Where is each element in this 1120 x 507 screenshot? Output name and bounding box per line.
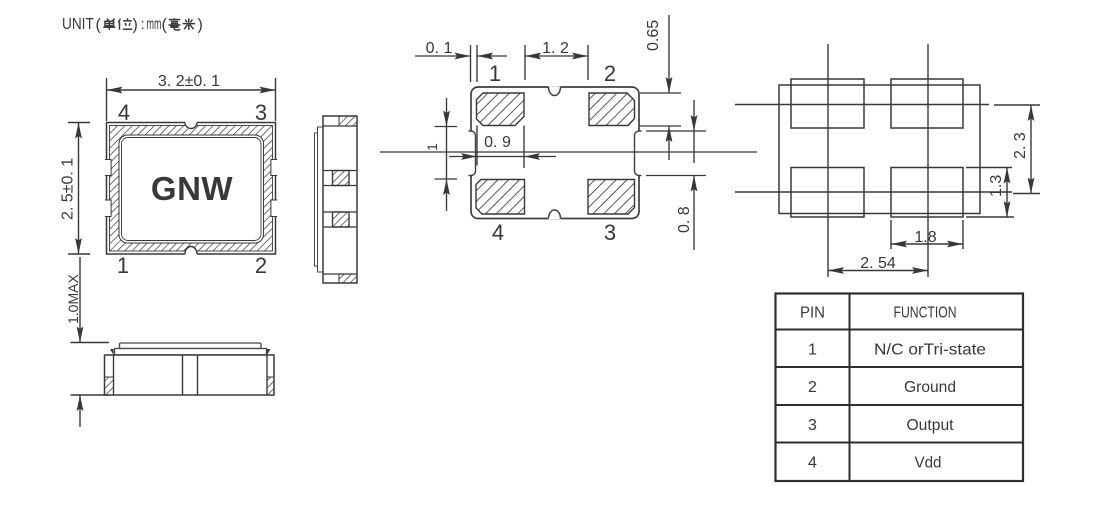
svg-text:PIN: PIN [800,305,825,322]
svg-text:UNIT: UNIT [62,16,94,33]
svg-text:Vdd: Vdd [915,455,942,472]
svg-text:1.0MAX: 1.0MAX [65,274,81,324]
svg-text:2. 54: 2. 54 [860,255,896,272]
svg-text:FUNCTION: FUNCTION [894,305,957,322]
svg-text:1: 1 [489,61,501,86]
svg-text:0. 8: 0. 8 [676,206,693,233]
svg-text:GNW: GNW [151,170,234,207]
svg-text:3: 3 [604,220,616,245]
svg-text:(: ( [96,17,102,34]
svg-text:Output: Output [907,417,955,434]
svg-text:2: 2 [604,61,616,86]
svg-text:mm: mm [147,14,162,33]
svg-text:3. 2±0. 1: 3. 2±0. 1 [158,73,220,90]
svg-text:1. 2: 1. 2 [542,40,569,57]
svg-text:Ground: Ground [904,379,956,396]
svg-text:1: 1 [117,253,129,278]
svg-text:1: 1 [808,342,817,359]
svg-text:1.8: 1.8 [914,229,936,246]
svg-text:2. 5±0. 1: 2. 5±0. 1 [60,158,77,220]
svg-text:4: 4 [492,220,504,245]
svg-text:(: ( [162,17,168,34]
svg-text:1: 1 [424,143,440,151]
svg-text:3: 3 [808,417,817,434]
svg-text:3: 3 [255,100,267,125]
svg-text::: : [141,16,145,33]
svg-text:0.65: 0.65 [645,20,662,51]
svg-text:0. 1: 0. 1 [426,40,453,57]
svg-text:1.3: 1.3 [988,175,1005,197]
svg-text:2: 2 [255,253,267,278]
svg-text:4: 4 [118,100,130,125]
svg-text:): ) [198,17,203,34]
svg-text:N/C orTri-state: N/C orTri-state [874,342,986,359]
svg-text:2. 3: 2. 3 [1012,132,1029,159]
svg-text:4: 4 [808,455,817,472]
svg-text:): ) [133,17,138,34]
svg-text:0. 9: 0. 9 [484,134,511,151]
svg-text:2: 2 [808,379,817,396]
